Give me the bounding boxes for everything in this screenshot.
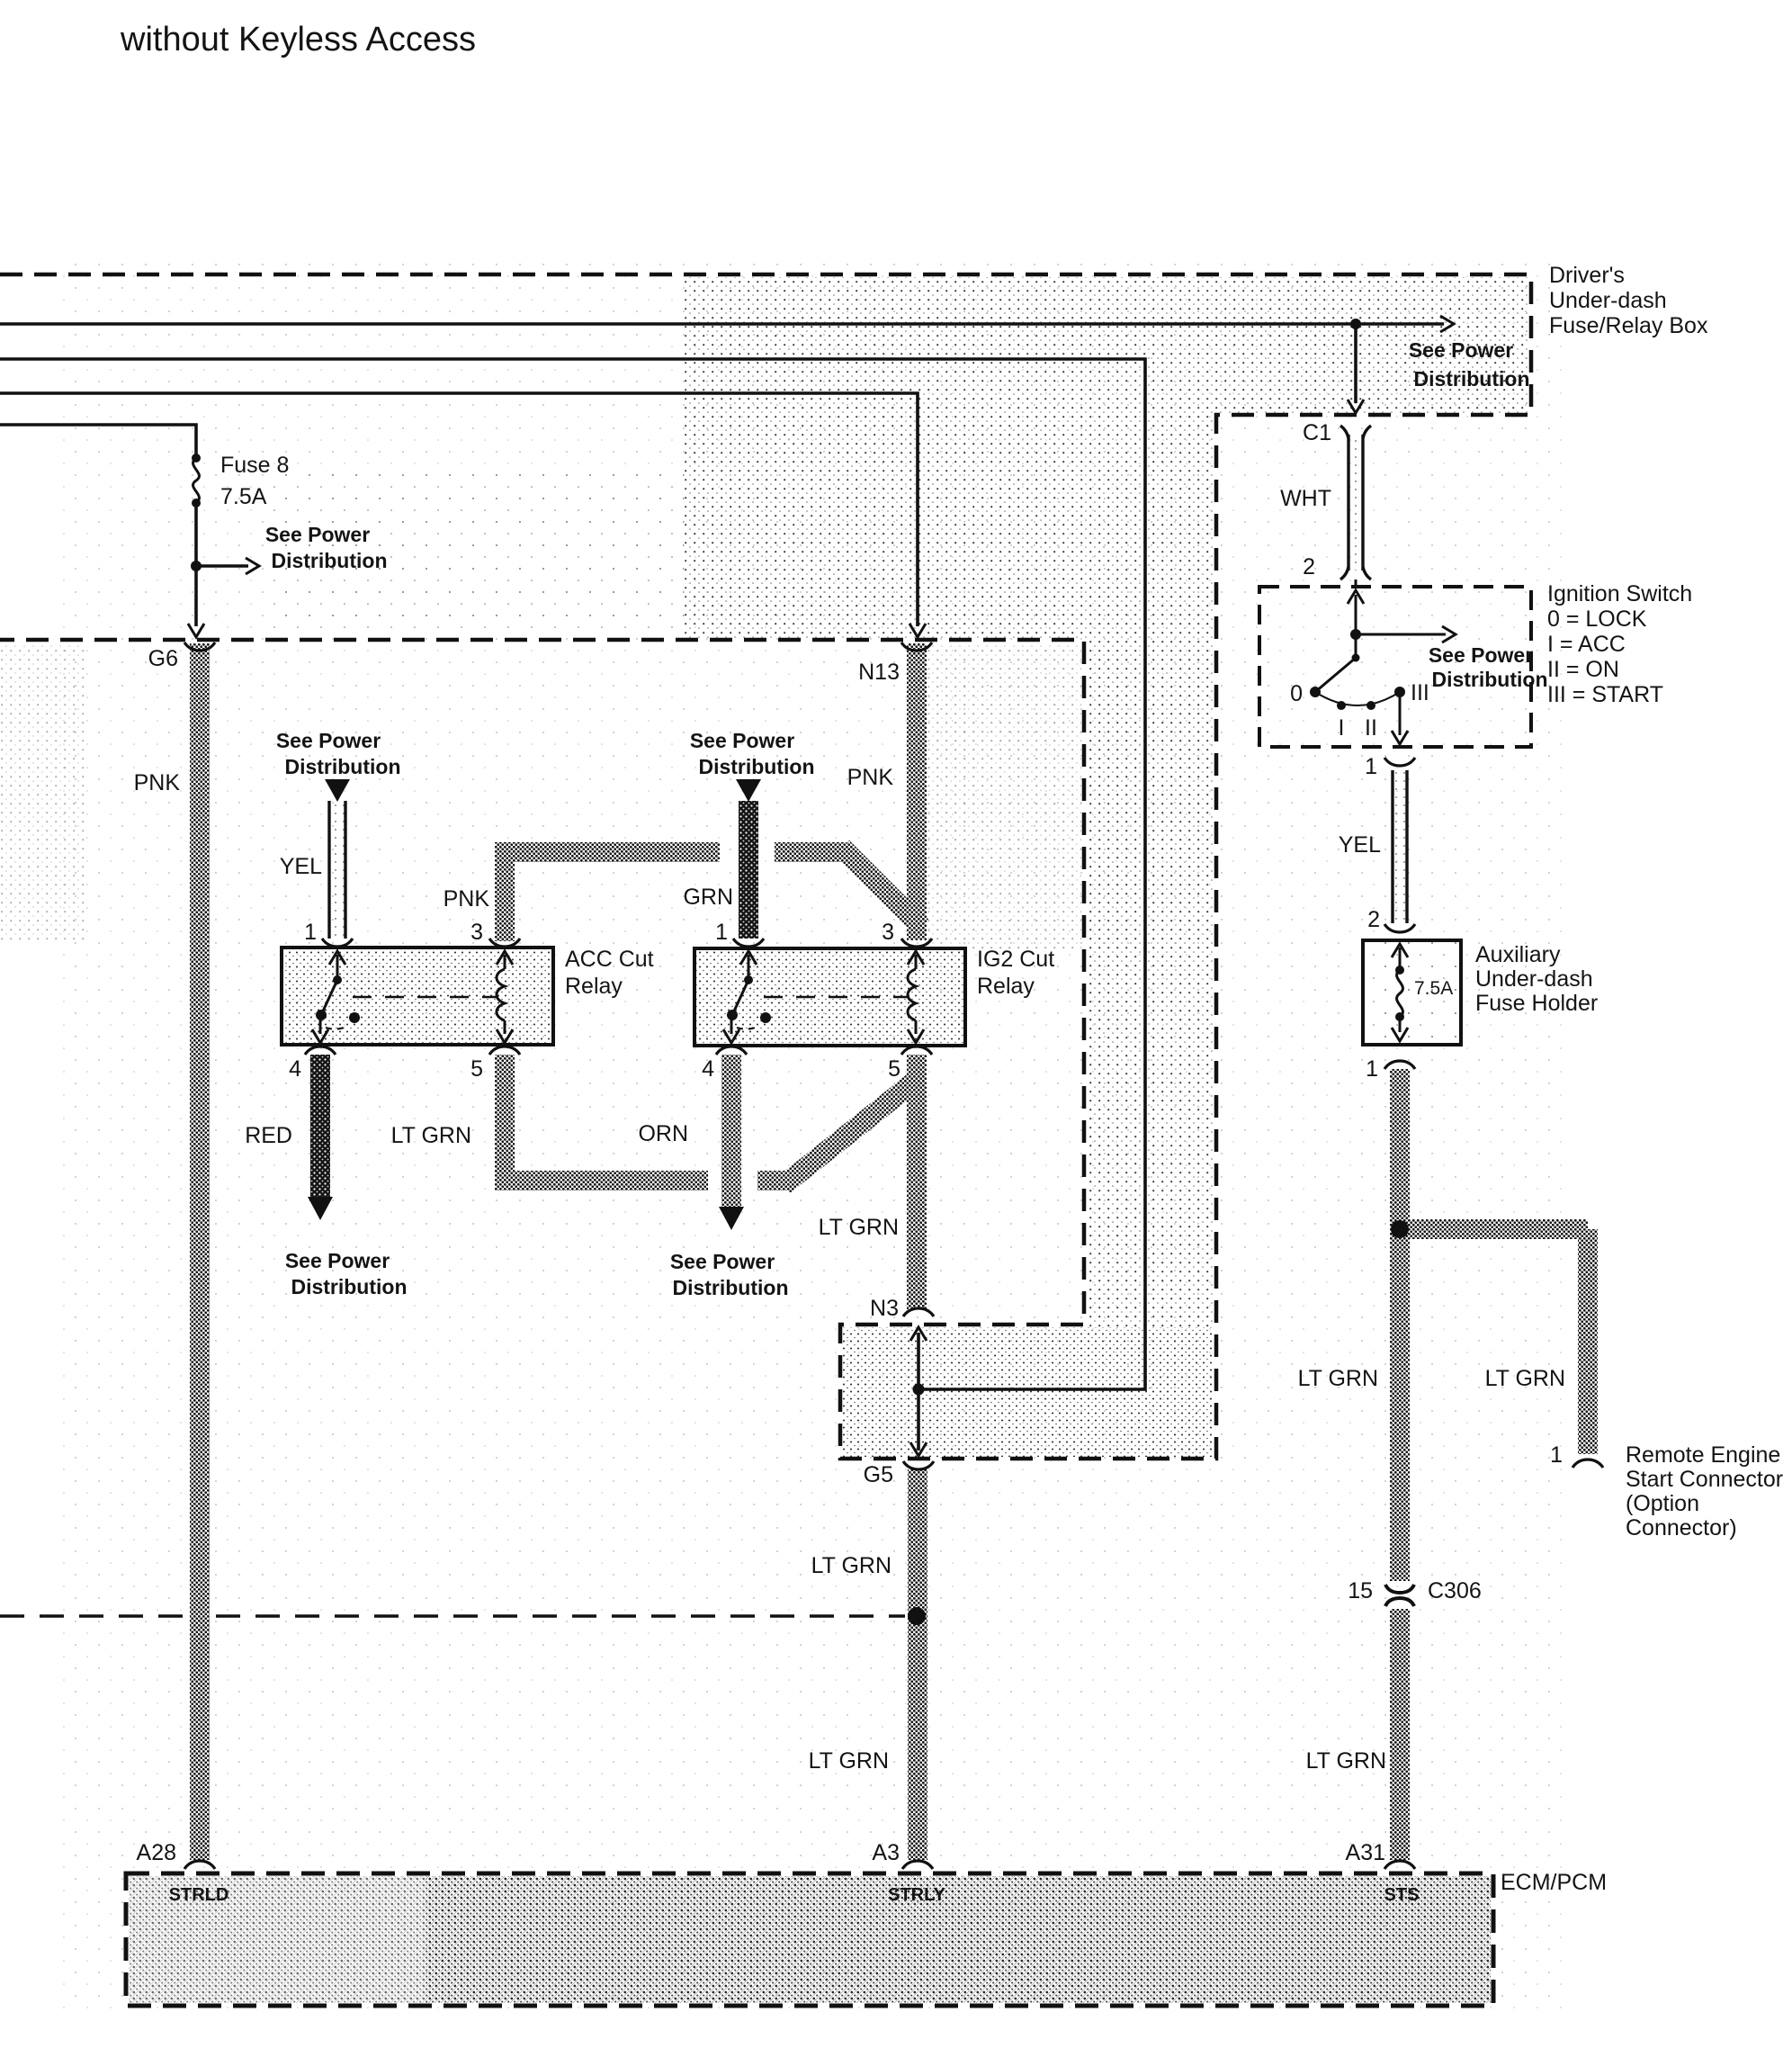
svg-text:LT GRN: LT GRN <box>1306 1748 1386 1774</box>
wire bus 3 down to N13 <box>0 393 918 626</box>
svg-text:without Keyless Access: without Keyless Access <box>120 21 476 58</box>
svg-text:7.5A: 7.5A <box>1414 978 1453 999</box>
dashed channel shading <box>1087 638 1213 1327</box>
relay IG2 internals: coil <box>908 951 924 1043</box>
wire fuse8 to G6 <box>194 503 198 626</box>
page scan noise <box>54 261 1565 2016</box>
fuse/relay box interior shading <box>270 277 1528 638</box>
svg-text:5: 5 <box>470 1056 483 1082</box>
svg-text:PNK: PNK <box>134 770 181 795</box>
svg-text:Remote Engine: Remote Engine <box>1626 1442 1780 1468</box>
svg-text:STS: STS <box>1384 1885 1420 1905</box>
wire LT GRN G5 down to A3 <box>908 1469 927 1860</box>
svg-text:1: 1 <box>1366 1056 1378 1082</box>
svg-text:LT GRN: LT GRN <box>819 1215 899 1240</box>
svg-text:YEL: YEL <box>1339 832 1381 858</box>
svg-text:See Power: See Power <box>265 523 370 546</box>
svg-text:ACC Cut: ACC Cut <box>565 947 654 972</box>
ignition switch internals <box>1315 579 1456 744</box>
dashed outline driver's under-dash fuse/relay box <box>0 274 1531 1459</box>
relay IG2 Cut Relay box <box>694 948 965 1046</box>
junction dot at fuse branch <box>191 561 202 571</box>
svg-text:Distribution: Distribution <box>291 1275 407 1298</box>
svg-text:II = ON: II = ON <box>1547 657 1619 682</box>
wire YEL double-line at ACC pin 1 <box>325 779 350 939</box>
arrowhead down C1 feed <box>1348 400 1364 413</box>
relay ACC Cut Relay box <box>282 948 553 1045</box>
wire LT GRN from ACC pin 5 <box>495 1055 515 1181</box>
svg-text:2: 2 <box>1303 554 1315 579</box>
svg-text:7.5A: 7.5A <box>220 484 267 509</box>
svg-text:3: 3 <box>882 920 894 945</box>
svg-text:(Option: (Option <box>1626 1491 1699 1516</box>
svg-text:ORN: ORN <box>638 1121 688 1146</box>
wire see power distribution branch at fuse 8 <box>196 564 248 568</box>
svg-text:A28: A28 <box>137 1840 176 1865</box>
svg-text:Distribution: Distribution <box>672 1276 788 1299</box>
svg-text:Relay: Relay <box>565 974 623 999</box>
svg-text:Connector): Connector) <box>1626 1515 1737 1541</box>
svg-text:G6: G6 <box>148 646 178 671</box>
svg-text:LT GRN: LT GRN <box>811 1553 892 1578</box>
svg-text:See Power: See Power <box>670 1250 775 1273</box>
triangle arrow GRN top <box>736 779 761 802</box>
arrowhead right fuse branch <box>246 558 259 574</box>
svg-text:C1: C1 <box>1303 420 1331 445</box>
fuse F8 symbol <box>193 458 200 503</box>
svg-text:Start Connector: Start Connector <box>1626 1467 1783 1492</box>
wire LT GRN IG2 pin 5 down to N3 <box>907 1055 927 1309</box>
junction dot N3-G5 line <box>913 1384 925 1396</box>
svg-text:2: 2 <box>1367 907 1380 932</box>
svg-text:Distribution: Distribution <box>1431 668 1547 691</box>
triangle arrow RED bottom <box>308 1197 333 1220</box>
junction dot LT GRN aux branch <box>1391 1220 1409 1238</box>
svg-text:Distribution: Distribution <box>271 549 387 572</box>
fuse 7.5A inside aux holder <box>1392 944 1408 1041</box>
svg-text:5: 5 <box>888 1056 900 1082</box>
svg-text:C306: C306 <box>1428 1578 1482 1603</box>
relay ACC internals: coil <box>497 951 513 1043</box>
svg-text:Ignition Switch: Ignition Switch <box>1547 581 1692 606</box>
svg-text:PNK: PNK <box>847 765 894 790</box>
triangle arrow ORN bottom <box>719 1207 744 1230</box>
svg-text:See Power: See Power <box>276 729 381 752</box>
svg-text:See Power: See Power <box>1429 643 1533 667</box>
svg-text:4: 4 <box>289 1056 301 1082</box>
faint blotches <box>928 643 1081 949</box>
pin marks (connector arcs) <box>184 642 1603 1869</box>
relay ACC internals: switch <box>312 951 345 1043</box>
svg-text:1: 1 <box>1550 1442 1563 1468</box>
wire LT GRN branch to remote engine start connector <box>1400 1219 1588 1239</box>
svg-text:A3: A3 <box>872 1840 900 1865</box>
relay IG2 link dashes <box>764 996 908 999</box>
relay ACC link dashes <box>353 996 497 999</box>
wire bus 4 down to fuse 8 <box>0 425 196 458</box>
wire bus 1 to See Power Distribution arrow <box>0 322 1444 326</box>
dashed wire into LT GRN junction y1796 <box>0 1614 905 1618</box>
svg-text:RED: RED <box>245 1123 292 1148</box>
wire PNK left column G6 to A28 <box>190 643 210 1860</box>
svg-text:Fuse/Relay Box: Fuse/Relay Box <box>1549 313 1708 338</box>
svg-text:ECM/PCM: ECM/PCM <box>1501 1870 1607 1895</box>
relay IG2 internals: switch <box>723 951 757 1043</box>
svg-text:III = START: III = START <box>1547 682 1663 707</box>
svg-text:0: 0 <box>1290 681 1303 706</box>
svg-text:Under-dash: Under-dash <box>1549 288 1667 313</box>
N3/G5 junction box shading <box>843 1327 1213 1457</box>
svg-text:Distribution: Distribution <box>1413 367 1529 391</box>
svg-text:Under-dash: Under-dash <box>1475 966 1593 992</box>
svg-text:Relay: Relay <box>977 974 1035 999</box>
wire RED ACC pin 4 (dark) <box>310 1055 330 1198</box>
svg-text:Distribution: Distribution <box>284 755 400 778</box>
svg-text:IG2 Cut: IG2 Cut <box>977 947 1054 972</box>
wire PNK N13 down to IG2 pin 3 <box>907 643 927 940</box>
svg-text:1: 1 <box>1365 754 1377 779</box>
ECM/PCM box shading <box>129 1876 1491 2003</box>
svg-text:1: 1 <box>715 920 728 945</box>
junction dot bus1/C1 <box>1350 319 1361 329</box>
svg-text:1: 1 <box>304 920 317 945</box>
arrowhead right bus1 <box>1440 316 1454 332</box>
svg-text:4: 4 <box>702 1056 714 1082</box>
wire YEL ignition to aux fuse <box>1393 770 1407 923</box>
connector C1 (WHT) <box>1340 426 1371 579</box>
wire GRN IG2 pin 1 (dark) <box>739 801 758 939</box>
svg-text:YEL: YEL <box>280 854 322 879</box>
svg-text:LT GRN: LT GRN <box>1298 1366 1378 1391</box>
junction dot LT GRN at y1796 <box>908 1607 926 1625</box>
svg-text:LT GRN: LT GRN <box>1485 1366 1565 1391</box>
svg-text:G5: G5 <box>864 1462 893 1487</box>
svg-text:15: 15 <box>1348 1578 1373 1603</box>
svg-text:N3: N3 <box>870 1296 899 1321</box>
svg-text:GRN: GRN <box>683 885 733 910</box>
svg-text:See Power: See Power <box>1409 338 1513 362</box>
svg-text:N13: N13 <box>858 660 900 685</box>
arrowhead down G6 <box>188 624 204 637</box>
dashed outline ignition switch box <box>1259 587 1531 747</box>
auxiliary under-dash fuse holder box <box>1363 940 1461 1045</box>
dashed outline ECM/PCM box <box>126 1873 1493 2006</box>
wire N3 to G5 <box>917 1333 920 1451</box>
svg-text:See Power: See Power <box>690 729 794 752</box>
arrowhead up N3 <box>910 1327 927 1341</box>
svg-text:I = ACC: I = ACC <box>1547 632 1626 657</box>
svg-text:Driver's: Driver's <box>1549 263 1625 288</box>
svg-text:Auxiliary: Auxiliary <box>1475 942 1561 967</box>
svg-text:III: III <box>1411 680 1429 705</box>
svg-text:See Power: See Power <box>285 1249 390 1272</box>
svg-text:II: II <box>1365 715 1377 741</box>
wire branch down to C1 <box>1354 324 1357 403</box>
wire bus 2 down at x1273 to N3 junction <box>0 359 1145 1389</box>
svg-text:3: 3 <box>470 920 483 945</box>
svg-text:Distribution: Distribution <box>698 755 814 778</box>
svg-text:0 = LOCK: 0 = LOCK <box>1547 606 1647 632</box>
wire PNK branch to ACC pin 3 <box>495 852 515 941</box>
wire ORN IG2 pin 4 <box>721 1055 741 1207</box>
svg-text:Fuse 8: Fuse 8 <box>220 453 289 478</box>
wire LT GRN aux fuse to C306 and A31 <box>1390 1069 1410 1581</box>
svg-text:Fuse Holder: Fuse Holder <box>1475 991 1598 1016</box>
arrowhead down G5 <box>910 1442 927 1456</box>
svg-text:STRLY: STRLY <box>888 1885 945 1905</box>
svg-text:PNK: PNK <box>444 886 490 912</box>
svg-text:I: I <box>1339 715 1345 741</box>
connector C306 <box>1385 1585 1414 1593</box>
arrowhead down N13 <box>909 624 926 637</box>
svg-text:A31: A31 <box>1346 1840 1385 1865</box>
svg-text:WHT: WHT <box>1280 486 1331 511</box>
svg-text:LT GRN: LT GRN <box>391 1123 471 1148</box>
svg-text:LT GRN: LT GRN <box>809 1748 889 1774</box>
svg-text:STRLD: STRLD <box>169 1885 229 1905</box>
